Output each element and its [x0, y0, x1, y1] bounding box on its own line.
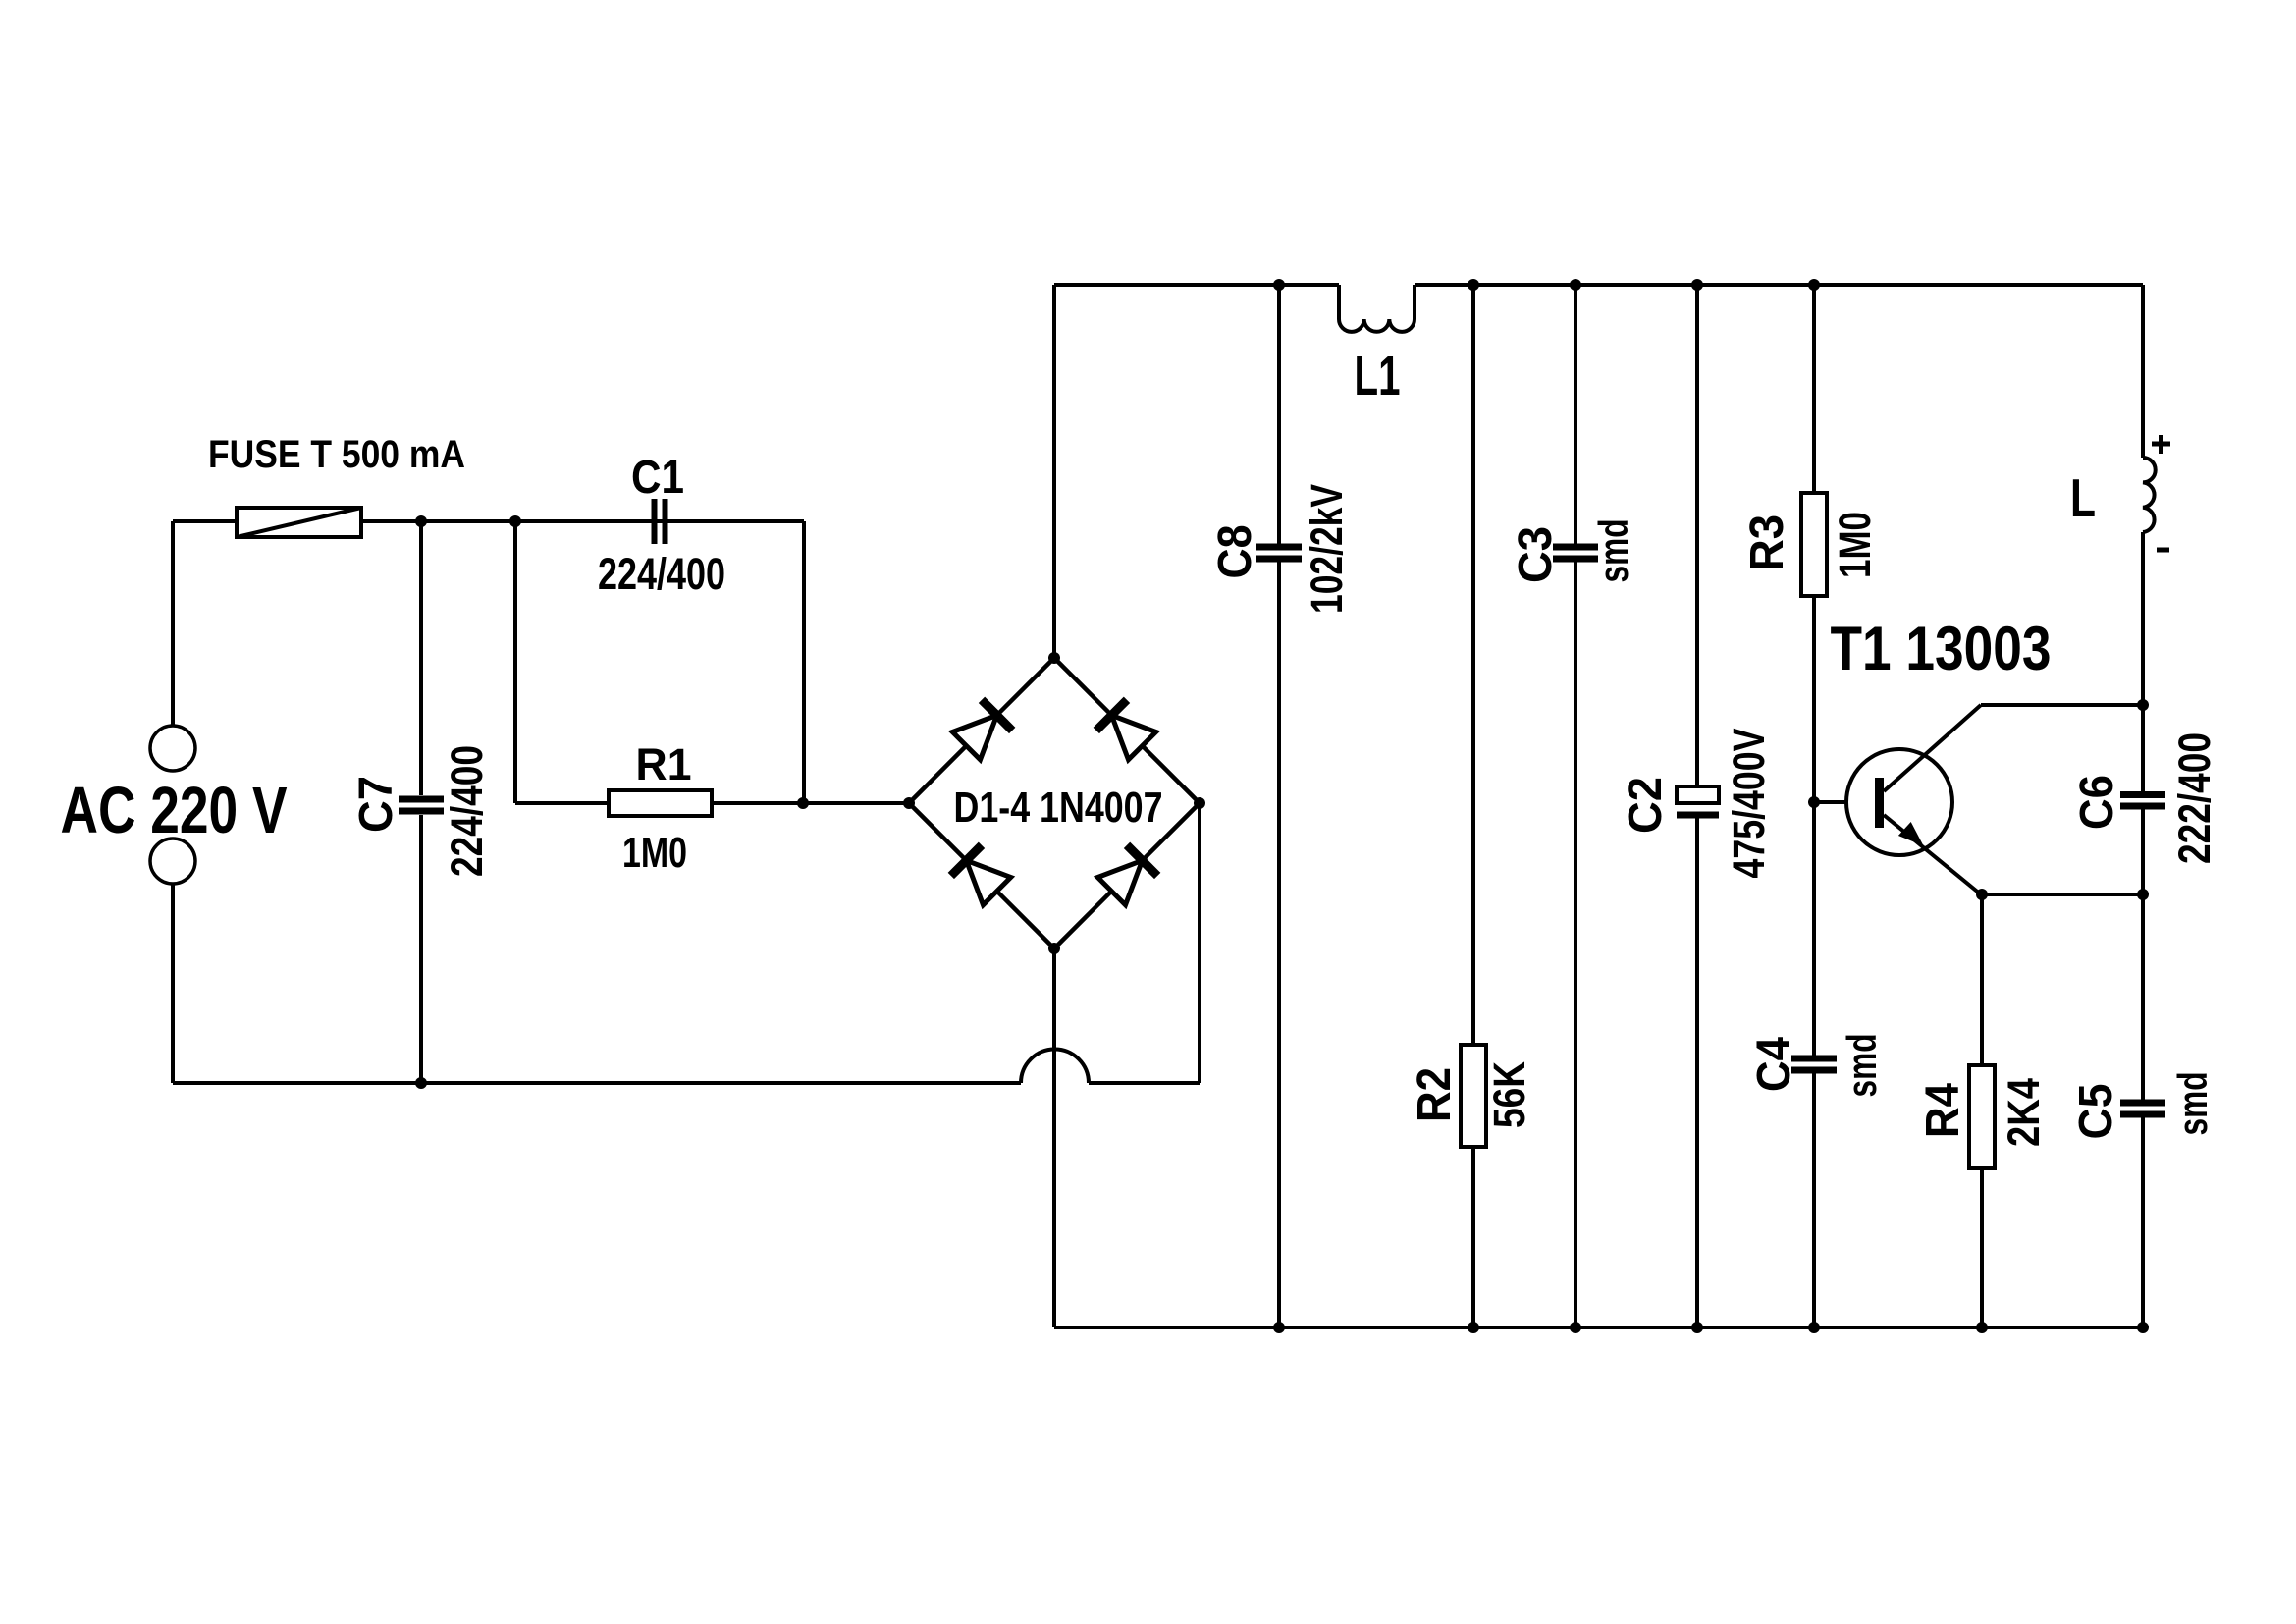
svg-text:L: L: [2070, 467, 2096, 528]
wire right bus C6 to C5: [2141, 809, 2145, 1103]
svg-text:smd: smd: [1590, 519, 1636, 583]
label R2: [1409, 1067, 1461, 1122]
transistor T1 collector: [1884, 705, 1981, 791]
svg-text:R1: R1: [636, 739, 692, 789]
svg-text:224/400: 224/400: [598, 549, 725, 599]
minus sign: [2157, 548, 2169, 553]
terminal circle lower: [150, 839, 195, 884]
capacitor C2 positive plate: [1677, 786, 1719, 803]
resistor R4 body: [1969, 1065, 1995, 1168]
label C7: [350, 776, 402, 833]
capacitor C1 plates: [652, 499, 658, 544]
wire hop over bridge minus line: [1021, 1050, 1089, 1084]
svg-text:1M0: 1M0: [622, 829, 687, 877]
resistor R1 body: [609, 790, 712, 816]
label R3: [1741, 514, 1793, 571]
diodes D1-D4: [951, 700, 1157, 905]
inductor L1 coil: [1339, 285, 1415, 332]
capacitor C7 leads: [419, 521, 423, 795]
wire R2 upper lead: [1471, 285, 1475, 1045]
wire right bus L to C6: [2141, 532, 2145, 792]
wire C2 lower lead: [1695, 815, 1699, 1327]
svg-text:C4: C4: [1748, 1037, 1800, 1092]
wire R1 to bridge left node: [712, 801, 909, 805]
svg-text:C3: C3: [1510, 526, 1562, 583]
wire R3 upper lead: [1812, 285, 1816, 493]
wire fuse to C7 node: [361, 519, 804, 523]
label smd of C5: [2169, 1072, 2216, 1136]
label 224/400 of C7: [442, 745, 492, 877]
wire emitter to right bus: [1981, 893, 2143, 896]
wire AC live top row: [173, 519, 237, 523]
svg-text:C1: C1: [631, 452, 684, 504]
svg-text:56K: 56K: [1484, 1061, 1534, 1128]
wire top bus right part: [1415, 283, 2143, 287]
wire C8 lower lead: [1277, 559, 1281, 1327]
fuse F1 body: [237, 508, 361, 537]
label C5: [2070, 1084, 2122, 1140]
svg-text:R4: R4: [1917, 1083, 1969, 1138]
label 1M0 of R3: [1830, 512, 1880, 578]
capacitor C4 plates: [1791, 1056, 1837, 1062]
svg-text:smd: smd: [2169, 1072, 2216, 1136]
resistor R2 body: [1461, 1045, 1486, 1147]
wire neutral to bridge right node: [1089, 1081, 1200, 1085]
wire right bus C5 to bottom: [2141, 1114, 2145, 1327]
capacitor C7 plates: [399, 796, 444, 803]
label C6: [2071, 775, 2123, 830]
label C4: [1748, 1037, 1800, 1092]
capacitor C6 plates: [2120, 791, 2165, 798]
wire C1 loop left vertical: [513, 521, 517, 803]
wire R4 upper lead: [1980, 894, 1984, 1065]
transistor T1 base bar: [1875, 778, 1884, 828]
wire C8 upper lead: [1277, 285, 1281, 547]
svg-text:R2: R2: [1409, 1067, 1461, 1122]
terminal circle upper: [150, 726, 195, 771]
wire bottom bus: [1054, 1326, 2143, 1329]
svg-text:224/400: 224/400: [442, 745, 492, 877]
resistor R3 body: [1801, 493, 1827, 596]
label 102/2kV of C8: [1302, 484, 1352, 614]
capacitor C8 plates: [1256, 544, 1302, 551]
svg-text:D1-4 1N4007: D1-4 1N4007: [954, 784, 1163, 832]
svg-text:L1: L1: [1355, 345, 1401, 407]
label smd of C3: [1590, 519, 1636, 583]
rotated labels: [350, 484, 2219, 1147]
diode D1 top-left: [952, 700, 1012, 760]
label 2K4 of R4: [1999, 1078, 2049, 1147]
label 475/400V of C2: [1724, 729, 1774, 879]
wire R1 left lead: [515, 801, 609, 805]
svg-text:T1 13003: T1 13003: [1831, 615, 2052, 683]
wire R2 lower lead: [1471, 1147, 1475, 1327]
diode D4 bottom-right: [1097, 845, 1157, 905]
wire C3 lower lead: [1574, 559, 1577, 1327]
svg-text:2K4: 2K4: [1999, 1078, 2049, 1147]
bridge rectifier sides: [909, 658, 1054, 803]
wire top bus left part: [1054, 283, 1339, 287]
horizontal labels: [61, 345, 2097, 877]
wire C1 loop right vertical: [802, 521, 806, 803]
capacitor C3 plates: [1553, 544, 1598, 551]
svg-text:C2: C2: [1620, 777, 1672, 834]
svg-text:smd: smd: [1839, 1034, 1885, 1098]
wire C2 upper lead: [1695, 285, 1699, 786]
svg-text:222/400: 222/400: [2169, 732, 2219, 864]
svg-text:C7: C7: [350, 776, 402, 833]
diode D3 bottom-left: [951, 845, 1011, 905]
svg-text:C6: C6: [2071, 775, 2123, 830]
wire R3 to base node: [1812, 596, 1816, 1058]
svg-text:102/2kV: 102/2kV: [1302, 484, 1352, 614]
diode D2 top-right: [1096, 700, 1156, 760]
inductor L coil: [2143, 458, 2156, 532]
wire bridge minus down: [1052, 948, 1056, 1327]
wire R4 lower lead: [1980, 1168, 1984, 1327]
wire AC neutral bottom: [173, 1081, 1021, 1085]
transistor T1 circle: [1846, 749, 1952, 855]
svg-text:C5: C5: [2070, 1084, 2122, 1140]
wire AC left vertical upper: [171, 521, 175, 726]
wire C4 lower lead: [1812, 1070, 1816, 1327]
label C3: [1510, 526, 1562, 583]
svg-text:C8: C8: [1209, 525, 1261, 579]
capacitor C2 negative plate: [1677, 812, 1719, 819]
wire base lead: [1814, 800, 1876, 804]
svg-text:1M0: 1M0: [1830, 512, 1880, 578]
capacitor C5 plates: [2120, 1100, 2165, 1107]
label R4: [1917, 1083, 1969, 1138]
label C8: [1209, 525, 1261, 579]
transistor T1 emitter arrow: [1898, 822, 1924, 846]
label smd of C4: [1839, 1034, 1885, 1098]
label 222/400 of C6: [2169, 732, 2219, 864]
svg-text:R3: R3: [1741, 514, 1793, 571]
svg-text:AC 220 V: AC 220 V: [61, 774, 288, 847]
svg-text:475/400V: 475/400V: [1724, 729, 1774, 879]
wire C3 upper lead: [1574, 285, 1577, 547]
plus sign: [2152, 442, 2170, 447]
wire AC left vertical lower: [171, 884, 175, 1083]
transistor T1 emitter: [1884, 815, 1981, 894]
label C2: [1620, 777, 1672, 834]
wire right bus top: [2141, 285, 2145, 458]
label 56K of R2: [1484, 1061, 1534, 1128]
svg-text:FUSE T 500 mA: FUSE T 500 mA: [208, 433, 465, 476]
fuse F1 diagonal: [237, 508, 361, 537]
wire bridge plus up: [1052, 285, 1056, 658]
